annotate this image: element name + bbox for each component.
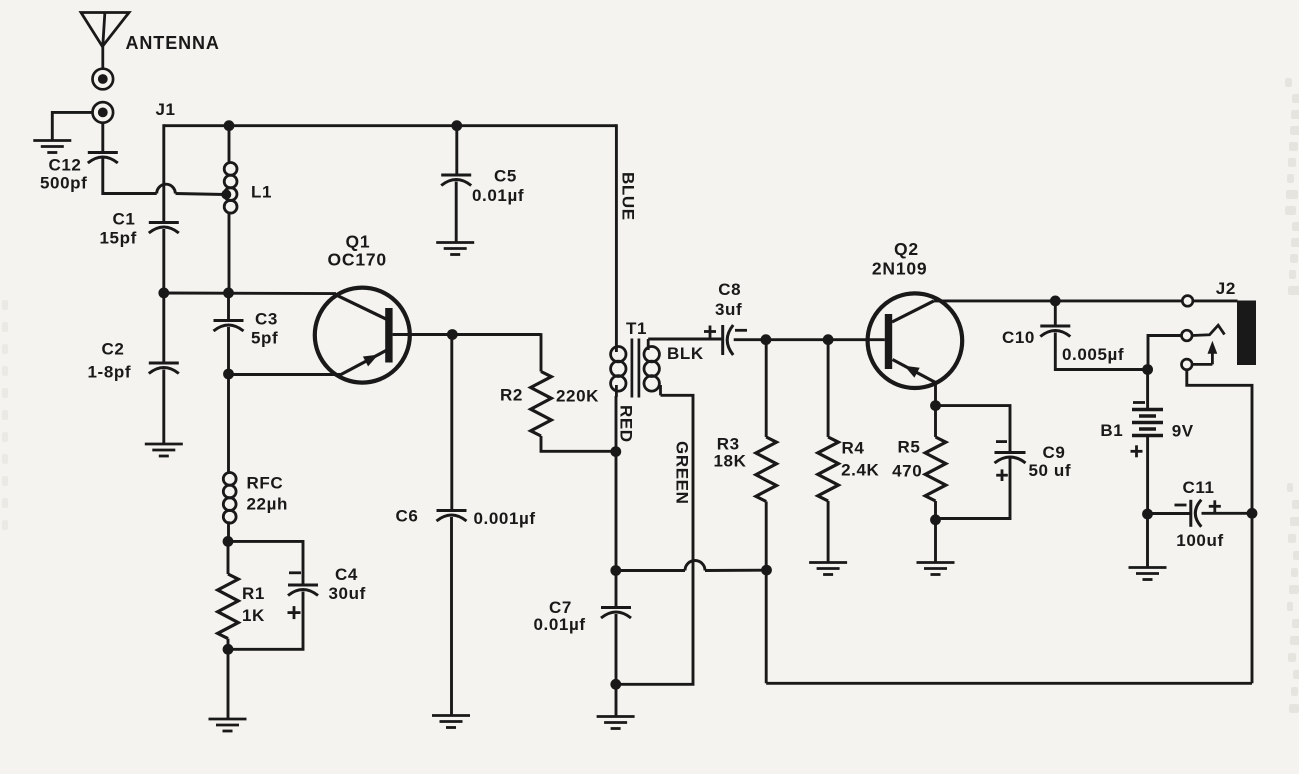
ground at R5 <box>917 563 955 575</box>
label 50uf <box>1029 461 1072 480</box>
wire C10 top lead <box>1054 301 1057 325</box>
wire Q2 collector to J2 <box>934 299 1183 302</box>
capacitor C4 <box>288 585 318 596</box>
capacitor C10 <box>1040 326 1070 337</box>
wire node to C4 top <box>228 541 303 584</box>
node top bus at C5 <box>451 120 462 131</box>
ground at R4 <box>809 563 847 575</box>
svg-text:1-8pf: 1-8pf <box>88 363 132 382</box>
wire emitter node to RFC <box>227 374 230 473</box>
label 9V <box>1172 421 1194 440</box>
svg-text:100uf: 100uf <box>1176 531 1223 550</box>
svg-text:J2: J2 <box>1216 279 1236 298</box>
svg-text:C2: C2 <box>102 340 125 359</box>
label C9 <box>1043 443 1066 462</box>
svg-text:0.01µf: 0.01µf <box>534 615 586 634</box>
svg-text:B1: B1 <box>1100 421 1123 440</box>
node battery bottom <box>1142 509 1153 520</box>
node R1 bottom <box>223 644 234 655</box>
svg-text:RED: RED <box>617 405 636 443</box>
node R5 bottom <box>930 514 941 525</box>
label GREEN <box>673 441 692 504</box>
label 220K <box>556 386 599 405</box>
wire R1 bottom to node <box>227 639 230 650</box>
wire Q1 base <box>393 333 541 336</box>
wire bottom bus <box>766 682 1252 685</box>
svg-text:2N109: 2N109 <box>872 259 928 279</box>
svg-text:T1: T1 <box>626 319 647 338</box>
label C12 <box>49 156 82 175</box>
minus sign C9 <box>996 440 1007 443</box>
label J2 <box>1216 279 1236 298</box>
transistor Q2 <box>868 293 963 388</box>
node Q1 emitter <box>223 369 234 380</box>
ground at C5 <box>436 243 474 255</box>
wire battery bottom lead <box>1146 436 1149 515</box>
svg-text:R4: R4 <box>842 438 865 457</box>
svg-text:5pf: 5pf <box>251 329 278 348</box>
page artifact left edge <box>2 300 8 530</box>
label C6 <box>396 507 419 526</box>
svg-text:0.01µf: 0.01µf <box>472 186 524 205</box>
label 5pf <box>251 329 278 348</box>
svg-text:C12: C12 <box>49 156 82 175</box>
svg-text:L1: L1 <box>251 183 272 202</box>
label RFC <box>247 474 284 493</box>
wire node to C3 <box>227 293 230 320</box>
label BLK <box>667 344 704 363</box>
wire C1 to node <box>162 229 165 293</box>
label C3 <box>255 310 278 329</box>
wire Q1 emitter <box>229 373 343 376</box>
svg-text:Q1: Q1 <box>346 231 371 251</box>
svg-text:R5: R5 <box>898 437 921 456</box>
node C11 right <box>1247 508 1258 519</box>
jack J2 sleeve terminal <box>1182 359 1193 370</box>
minus sign B1 <box>1133 401 1145 404</box>
svg-text:GREEN: GREEN <box>673 441 692 504</box>
label 15pf <box>100 229 137 248</box>
capacitor C7 <box>601 608 631 619</box>
svg-text:220K: 220K <box>556 386 599 405</box>
wire R4 top lead <box>827 340 830 437</box>
capacitor C6 <box>437 511 467 522</box>
svg-text:30uf: 30uf <box>329 584 366 603</box>
label L1 <box>251 183 272 202</box>
label RED <box>617 405 636 443</box>
wire top bus corner down to C1 <box>162 124 165 221</box>
svg-text:0.001µf: 0.001µf <box>474 509 536 528</box>
svg-text:470: 470 <box>892 461 922 480</box>
wire GREEN lead <box>616 395 693 684</box>
rf choke RFC <box>223 473 236 524</box>
wire J2 ring to battery node <box>1148 336 1182 370</box>
label J1 <box>156 100 176 119</box>
node R3 top <box>761 334 772 345</box>
jack J2 switch contact <box>1192 325 1224 335</box>
plus sign C8 <box>704 326 716 338</box>
minus sign C11 <box>1175 504 1187 507</box>
wire R5 node to ground <box>934 520 937 562</box>
svg-text:C1: C1 <box>113 209 136 228</box>
minus sign C8 <box>735 329 747 332</box>
wire emitter node to R5 <box>934 406 937 437</box>
jack J2 body <box>1237 301 1256 366</box>
wire C11 to right bus <box>1202 512 1253 515</box>
wire C7 node to ground <box>615 684 618 716</box>
jack J2 tip terminal <box>1182 296 1193 307</box>
svg-text:500pf: 500pf <box>40 174 87 193</box>
page artifact right edge <box>1285 78 1299 713</box>
label T1 <box>626 319 647 338</box>
label 2.4K <box>841 460 879 479</box>
svg-text:C11: C11 <box>1183 478 1215 497</box>
battery B1 <box>1132 410 1163 436</box>
label Q1 <box>346 231 371 251</box>
label C2 <box>102 340 125 359</box>
label 30uf <box>329 584 366 603</box>
svg-text:C8: C8 <box>718 280 741 299</box>
wire L1 to collector node <box>228 212 231 294</box>
wire C3 to emitter node <box>227 327 230 375</box>
node Q1 base <box>447 329 458 340</box>
ground at C2 <box>145 444 183 456</box>
wire Q2 emitter down <box>934 383 937 407</box>
svg-text:9V: 9V <box>1172 421 1194 440</box>
node R4 top <box>823 334 834 345</box>
label R1 <box>242 584 265 603</box>
wire top bus to L1 <box>228 124 231 163</box>
jack J2 switch arrow <box>1208 341 1218 365</box>
label R4 <box>842 438 865 457</box>
svg-text:1K: 1K <box>242 606 265 625</box>
wire C2 to ground <box>162 370 165 444</box>
svg-text:C10: C10 <box>1002 328 1035 347</box>
wire top bus <box>164 124 617 127</box>
wire R1 node to ground <box>227 649 230 718</box>
antenna terminal plug <box>93 69 114 90</box>
label 18K <box>714 451 747 470</box>
wire C7 to R3 with hop <box>616 561 767 571</box>
wire node to R1 <box>227 541 230 574</box>
svg-text:C6: C6 <box>396 507 419 526</box>
node top bus at L1 <box>224 120 235 131</box>
ground at C6 <box>432 716 470 728</box>
label Q2 <box>894 239 919 259</box>
label 3uf <box>715 300 742 319</box>
svg-text:3uf: 3uf <box>715 300 742 319</box>
label 22uh <box>247 495 289 514</box>
node C1-C2 <box>158 288 169 299</box>
minus sign C4 <box>289 571 301 574</box>
plus sign C11 <box>1209 500 1221 512</box>
node C10 top <box>1050 296 1061 307</box>
ground at C7 <box>597 717 635 729</box>
wire J2 tip to body <box>1193 299 1238 302</box>
label ANTENNA <box>126 33 220 53</box>
node L1 tap <box>221 190 231 200</box>
svg-text:C3: C3 <box>255 310 278 329</box>
wire C4 bottom to R1 node <box>228 592 303 650</box>
plus sign B1 <box>1131 445 1143 457</box>
resistor R4 <box>818 437 839 501</box>
svg-text:C4: C4 <box>335 565 358 584</box>
capacitor C12 <box>88 153 118 164</box>
wire C12 to L1 tap with hop <box>103 159 225 195</box>
label R2 <box>500 385 523 404</box>
label C7 <box>549 598 572 617</box>
svg-text:ANTENNA: ANTENNA <box>126 33 220 53</box>
wire BLK lead <box>648 338 723 341</box>
label 470 <box>892 461 922 480</box>
wire emitter node to C9 <box>936 406 1011 452</box>
svg-text:R1: R1 <box>242 584 265 603</box>
node Q2 emitter <box>930 400 941 411</box>
label C4 <box>335 565 358 584</box>
node C3 top <box>223 288 234 299</box>
label 2N109 <box>872 259 928 279</box>
wire BLUE lead <box>615 124 618 352</box>
label 1-8pf <box>88 363 132 382</box>
wire R5 to bottom node <box>934 501 937 520</box>
resistor R5 <box>925 437 946 501</box>
wire battery node to ground <box>1146 514 1149 567</box>
wire Q1 collector <box>164 292 336 296</box>
node battery top <box>1142 364 1153 375</box>
svg-text:C5: C5 <box>494 166 517 185</box>
label C8 <box>718 280 741 299</box>
label R3 <box>717 434 740 453</box>
resistor R1 <box>218 574 239 639</box>
node C7 bottom <box>610 679 621 690</box>
jack J1 <box>93 102 114 123</box>
capacitor C2 <box>149 363 179 374</box>
node RED-R2 <box>610 446 621 457</box>
svg-text:50 uf: 50 uf <box>1029 461 1072 480</box>
wire J1 to C12 <box>101 123 104 152</box>
ground at B1 <box>1129 568 1167 580</box>
label C11 <box>1183 478 1215 497</box>
label 500pf <box>40 174 87 193</box>
wire R2 to RED node <box>541 436 616 451</box>
label C10 <box>1002 328 1035 347</box>
label 1K <box>242 606 265 625</box>
wire C7 to bottom node <box>615 614 618 684</box>
plus sign C9 <box>996 469 1008 481</box>
wire right bus down <box>1251 513 1254 683</box>
capacitor C5 <box>441 175 471 186</box>
svg-text:BLUE: BLUE <box>618 172 637 221</box>
capacitor C3 <box>214 321 244 332</box>
ground at R1 <box>209 719 247 731</box>
resistor R3 <box>756 437 777 502</box>
capacitor C11 <box>1191 500 1202 527</box>
svg-text:Q2: Q2 <box>894 239 919 259</box>
wire C10 to battery node <box>1055 333 1147 370</box>
node R3 bottom <box>761 565 772 576</box>
wire base node to R2 <box>540 333 543 371</box>
wire J2 sleeve contact <box>1192 363 1212 366</box>
inductor L1 <box>224 163 237 214</box>
svg-text:J1: J1 <box>156 100 176 119</box>
wire C5 to ground <box>455 182 458 243</box>
ground at J1 <box>33 141 71 153</box>
resistor R2 <box>531 372 552 437</box>
svg-text:OC170: OC170 <box>328 250 387 270</box>
svg-text:18K: 18K <box>714 451 747 470</box>
transformer T1 primary <box>611 347 626 398</box>
wire C8 to Q2 base <box>734 338 885 341</box>
svg-text:15pf: 15pf <box>100 229 137 248</box>
svg-text:2.4K: 2.4K <box>841 460 879 479</box>
node RFC-R1-C4 <box>223 536 234 547</box>
label 100uf <box>1176 531 1223 550</box>
label C1 <box>113 209 136 228</box>
svg-text:RFC: RFC <box>247 474 284 493</box>
wire battery node to C11 <box>1148 512 1191 515</box>
label OC170 <box>328 250 387 270</box>
transformer T1 secondary <box>644 339 661 395</box>
wire top bus to C5 <box>455 126 458 174</box>
label 0.01uf C5 <box>472 186 524 205</box>
antenna symbol <box>81 13 129 68</box>
svg-text:C9: C9 <box>1043 443 1066 462</box>
label B1 <box>1100 421 1123 440</box>
capacitor C1 <box>149 223 179 234</box>
wire R3 top lead <box>765 340 768 437</box>
svg-text:0.005µf: 0.005µf <box>1062 345 1124 364</box>
wire C6 to ground <box>450 517 453 715</box>
wire battery top lead <box>1146 370 1149 409</box>
wire R3 to bottom node <box>765 502 768 571</box>
wire node to C2 <box>162 293 165 362</box>
svg-text:R2: R2 <box>500 385 523 404</box>
jack J2 ring terminal <box>1182 330 1193 341</box>
wire RED node to C7 <box>615 571 618 607</box>
label BLUE <box>618 172 637 221</box>
label C5 <box>494 166 517 185</box>
node RED-C7 <box>610 565 621 576</box>
wire base node down to C6 <box>450 335 453 511</box>
capacitor C8 <box>723 325 734 355</box>
label 0.01uf C7 <box>534 615 586 634</box>
label 0.005uf <box>1062 345 1124 364</box>
transformer T1 core <box>632 339 639 398</box>
wire J1 to ground <box>52 112 92 140</box>
wire R4 to ground <box>827 501 830 562</box>
wire RFC to node <box>227 521 230 542</box>
svg-text:BLK: BLK <box>667 344 704 363</box>
wire C9 to R5 node <box>936 459 1011 519</box>
label 0.001uf <box>474 509 536 528</box>
wire R3 node to bus corner <box>765 570 768 683</box>
wire J2 sleeve down-right <box>1187 370 1252 514</box>
wire RED lead <box>615 396 618 571</box>
plus sign C4 <box>288 606 301 619</box>
svg-text:22µh: 22µh <box>247 495 289 514</box>
label R5 <box>898 437 921 456</box>
capacitor C9 <box>995 453 1026 464</box>
transistor Q1 <box>315 288 410 383</box>
